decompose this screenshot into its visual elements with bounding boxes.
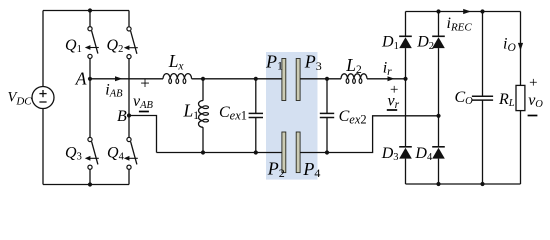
svg-text:P4: P4 xyxy=(302,159,320,180)
svg-text:Q4: Q4 xyxy=(107,145,125,163)
voltage source VDC xyxy=(32,87,54,109)
rectifier left leg wires xyxy=(405,12,407,37)
junction right leg top xyxy=(436,9,440,13)
svg-text:L1: L1 xyxy=(183,101,200,122)
svg-text:D3: D3 xyxy=(381,145,399,163)
svg-text:Cex1: Cex1 xyxy=(219,104,247,123)
wire P3 to L2 xyxy=(300,78,341,80)
wire leg1 bottom xyxy=(89,169,91,184)
junction Cex1 bottom xyxy=(254,150,258,154)
switch Q1 xyxy=(85,27,99,59)
junction lower input to right leg xyxy=(436,114,440,118)
svg-text:+: + xyxy=(528,75,538,91)
node A xyxy=(88,77,92,81)
svg-text:ir: ir xyxy=(383,60,392,78)
svg-text:Lx: Lx xyxy=(168,51,185,72)
coupling plates shaded region xyxy=(266,52,318,180)
wire leg2 middle xyxy=(128,59,130,138)
wire left column top xyxy=(42,11,44,87)
svg-text:iREC: iREC xyxy=(447,15,473,33)
switch Q2 xyxy=(124,27,138,59)
switch Q4 xyxy=(124,137,138,169)
wire top rail inverter xyxy=(43,10,129,12)
wire P4 to step up and rectifier right leg xyxy=(300,116,438,153)
capacitor Cex1 plates xyxy=(249,112,263,114)
inductor L2 xyxy=(341,74,367,84)
svg-text:vO: vO xyxy=(528,92,543,110)
svg-text:P3: P3 xyxy=(304,52,322,73)
svg-text:CO: CO xyxy=(455,89,474,107)
junction Cex2 bottom xyxy=(325,150,329,154)
wire bottom tank xyxy=(157,152,282,154)
svg-text:D1: D1 xyxy=(381,34,399,52)
junction leg1 bottom rail xyxy=(88,182,92,186)
wire rectifier bottom rail xyxy=(406,183,521,185)
label - of vAB xyxy=(139,111,149,113)
junction L1 top xyxy=(201,77,205,81)
junction tank top to left leg xyxy=(403,77,407,81)
svg-text:B: B xyxy=(117,108,127,125)
current arrow iREC xyxy=(463,9,471,14)
svg-text:+: + xyxy=(139,73,150,92)
wire leg1 top xyxy=(89,11,91,27)
svg-text:RL: RL xyxy=(498,91,515,109)
svg-text:Cex2: Cex2 xyxy=(339,108,367,127)
resistor RL xyxy=(516,85,525,110)
junction Cex1 top xyxy=(254,77,258,81)
label - of vO xyxy=(528,115,538,117)
plate P4 xyxy=(296,132,300,173)
svg-text:D2: D2 xyxy=(416,34,434,52)
junction leg1 top rail xyxy=(88,8,92,12)
inductor Lx xyxy=(163,74,192,84)
junction L1 bottom xyxy=(201,150,205,154)
switch Q3 xyxy=(85,137,99,169)
svg-text:Q3: Q3 xyxy=(65,145,82,163)
inductor L1 xyxy=(199,101,209,128)
svg-text:Q2: Q2 xyxy=(107,37,124,55)
plate P2 xyxy=(282,132,286,173)
diode D4 xyxy=(432,147,445,159)
rectifier right leg wires xyxy=(438,12,440,37)
wire Lx to P1 xyxy=(192,78,282,80)
current arrow ir xyxy=(388,76,395,81)
svg-text:iO: iO xyxy=(503,36,516,54)
inductor L1 branch wires xyxy=(202,79,204,101)
diode D2 xyxy=(432,36,445,48)
diode D1 xyxy=(399,36,412,48)
wire L2 to rectifier xyxy=(367,78,406,80)
junction CO top xyxy=(480,9,484,13)
label - of vr xyxy=(387,109,397,111)
current arrow iAB xyxy=(115,76,123,81)
wire rectifier top rail xyxy=(406,11,521,13)
node B xyxy=(127,113,131,117)
svg-text:VDC: VDC xyxy=(8,90,33,108)
svg-text:iAB: iAB xyxy=(105,81,123,99)
svg-text:Q1: Q1 xyxy=(65,37,82,55)
plate P3 xyxy=(296,59,300,101)
capacitor Cex2 plates xyxy=(320,112,334,114)
diode D3 xyxy=(399,147,412,159)
wire left column bottom xyxy=(42,109,44,185)
junction CO bottom xyxy=(480,182,484,186)
capacitor CO plates xyxy=(472,95,493,97)
svg-text:D4: D4 xyxy=(414,145,433,163)
wire leg2 top xyxy=(128,11,130,27)
wire right branch bottom xyxy=(520,111,522,184)
wire leg2 bottom xyxy=(128,169,130,184)
wire right branch top xyxy=(520,12,522,86)
svg-text:vAB: vAB xyxy=(133,93,154,111)
junction Cex2 top xyxy=(325,77,329,81)
capacitor Cex1 branch wires xyxy=(255,79,257,114)
current arrow iO xyxy=(518,43,523,51)
wire bottom rail inverter xyxy=(43,184,129,186)
svg-text:L2: L2 xyxy=(345,55,362,76)
wire leg1 middle xyxy=(89,59,91,138)
capacitor Cex2 branch wires xyxy=(326,79,328,114)
junction right leg bottom xyxy=(436,182,440,186)
wire B step down xyxy=(129,116,157,153)
capacitor CO branch wires xyxy=(482,12,484,97)
svg-text:A: A xyxy=(75,69,87,89)
plate P1 xyxy=(282,59,286,101)
wire node A to Lx xyxy=(90,78,163,80)
